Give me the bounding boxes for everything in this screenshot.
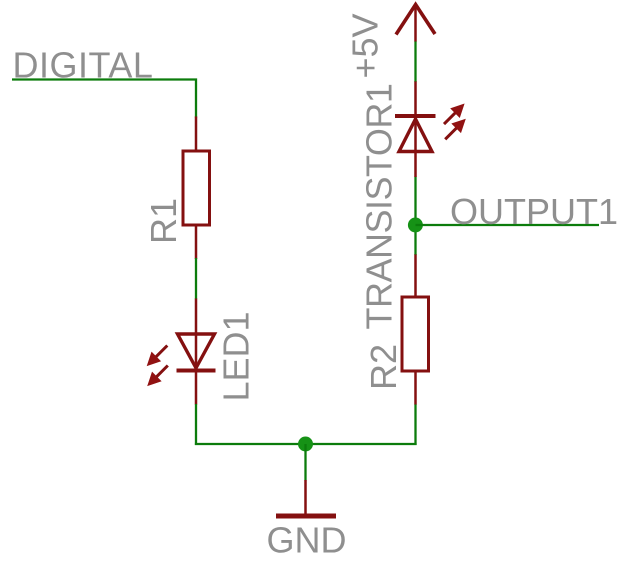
wire R1 to LED1 bbox=[195, 258, 197, 299]
resistor R2 body bbox=[402, 297, 429, 371]
ground GND bar bbox=[276, 514, 336, 519]
wire node to GND bbox=[304, 444, 306, 481]
power +5V supply pin bbox=[414, 4, 417, 42]
resistor R1 pin 1 (top) bbox=[195, 117, 198, 153]
LED LED1 triangle (anode, pointing down) bbox=[178, 334, 215, 368]
LED LED1 emission arrow 2 bbox=[144, 361, 172, 389]
resistor R1 body bbox=[183, 151, 210, 225]
wire +5V to TRANSISTOR1 bbox=[414, 41, 416, 82]
svg-text:LED1: LED1 bbox=[216, 311, 257, 401]
junction OUTPUT1 node bbox=[408, 218, 423, 233]
svg-text:OUTPUT1: OUTPUT1 bbox=[450, 191, 618, 232]
LED LED1 emission arrow 1 bbox=[143, 341, 171, 369]
wire OUTPUT1 net to right edge bbox=[416, 224, 600, 226]
LED TRANSISTOR1 triangle (pointing up) bbox=[399, 119, 432, 152]
LED TRANSISTOR1 cathode bar bbox=[395, 114, 436, 118]
wire bottom horizontal net bbox=[195, 443, 417, 445]
LED D1 pin line through body bbox=[195, 299, 198, 405]
LED TRANSISTOR1 emission arrow 2 bbox=[441, 115, 469, 143]
svg-text:GND: GND bbox=[267, 520, 347, 561]
LED TRANSISTOR1 pin line through body bbox=[414, 81, 417, 177]
ground GND pin bbox=[304, 480, 307, 516]
power +5V arrow chevron bbox=[396, 5, 435, 35]
wire DIGITAL net: horizontal then down to R1 bbox=[12, 80, 196, 118]
resistor R1 pin 2 (bottom) bbox=[195, 225, 198, 259]
wire bottom node to R2 bbox=[414, 404, 416, 445]
LED TRANSISTOR1 emission arrow 1 bbox=[440, 100, 468, 128]
LED LED1 cathode bar bbox=[177, 369, 216, 373]
svg-text:+5V: +5V bbox=[345, 13, 386, 78]
resistor R2 pin 2 (bottom) bbox=[414, 371, 417, 405]
svg-text:R2: R2 bbox=[363, 344, 404, 390]
svg-text:R1: R1 bbox=[143, 198, 184, 244]
resistor R2 pin 1 (top) bbox=[414, 254, 417, 297]
wire R2 to OUTPUT1 junction and LED above bbox=[414, 177, 416, 255]
svg-text:TRANSISTOR1: TRANSISTOR1 bbox=[359, 84, 400, 330]
wire LED1 to bottom node bbox=[195, 404, 197, 445]
junction bottom node bbox=[298, 437, 313, 452]
